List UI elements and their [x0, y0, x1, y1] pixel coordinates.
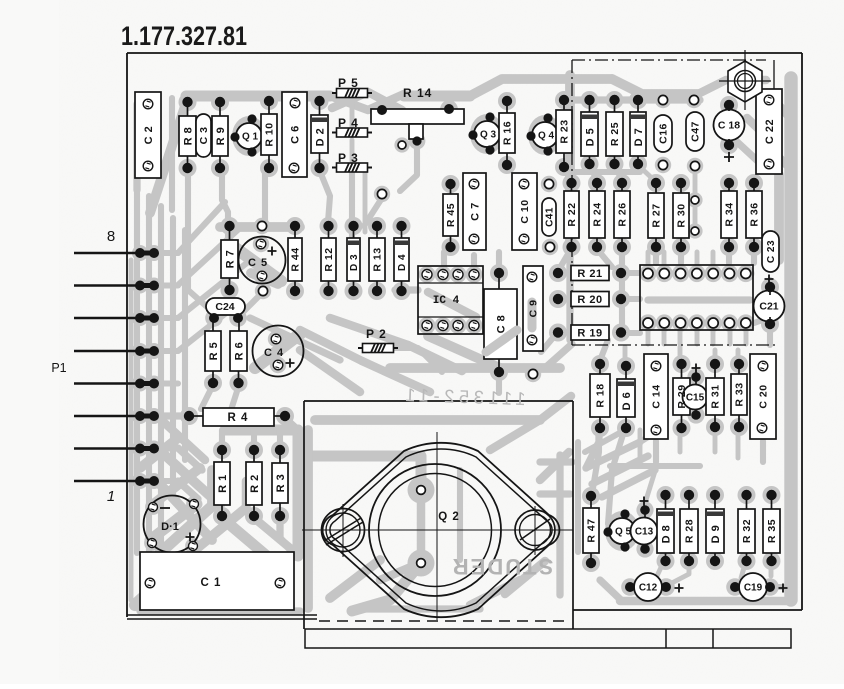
svg-text:C13: C13 — [635, 527, 654, 538]
svg-text:D 8: D 8 — [660, 525, 672, 544]
svg-text:Q 5: Q 5 — [615, 527, 632, 538]
svg-text:C 7: C 7 — [469, 202, 481, 221]
svg-text:C15: C15 — [686, 393, 705, 404]
svg-text:C21: C21 — [759, 301, 778, 313]
svg-text:D 3: D 3 — [349, 254, 360, 271]
svg-text:Q 4: Q 4 — [538, 131, 555, 142]
svg-text:R 24: R 24 — [592, 202, 604, 226]
svg-text:R 35: R 35 — [766, 519, 778, 543]
svg-text:1.177.327.81: 1.177.327.81 — [121, 22, 247, 52]
svg-text:111352-11: 111352-11 — [400, 384, 526, 409]
svg-text:C 4: C 4 — [264, 347, 284, 359]
svg-text:R 21: R 21 — [577, 268, 602, 280]
svg-text:R 10: R 10 — [264, 122, 276, 146]
svg-text:R 4: R 4 — [228, 412, 249, 424]
svg-text:R 23: R 23 — [559, 119, 571, 143]
svg-text:R 26: R 26 — [617, 202, 629, 226]
svg-text:R 20: R 20 — [577, 294, 602, 306]
svg-text:R 13: R 13 — [372, 247, 384, 271]
svg-text:R 8: R 8 — [182, 127, 194, 146]
svg-text:R 1: R 1 — [217, 474, 229, 493]
svg-text:C24: C24 — [215, 301, 234, 313]
svg-text:C 6: C 6 — [289, 125, 301, 144]
svg-text:C12: C12 — [639, 583, 658, 594]
svg-text:P1: P1 — [51, 361, 66, 375]
svg-text:R 16: R 16 — [502, 121, 514, 145]
svg-text:R 3: R 3 — [275, 474, 287, 493]
svg-text:R 14: R 14 — [403, 86, 432, 100]
svg-text:R 5: R 5 — [208, 342, 220, 361]
svg-text:D 7: D 7 — [633, 128, 645, 147]
svg-text:R 33: R 33 — [734, 382, 746, 406]
svg-text:R 47: R 47 — [586, 518, 598, 542]
svg-text:R 18: R 18 — [595, 383, 607, 407]
svg-text:Q 3: Q 3 — [480, 130, 497, 141]
svg-text:C16: C16 — [658, 123, 670, 144]
svg-text:R 44: R 44 — [290, 247, 302, 271]
svg-text:8: 8 — [107, 228, 115, 245]
svg-text:R 31: R 31 — [710, 384, 722, 408]
svg-text:R 28: R 28 — [684, 519, 696, 543]
svg-text:C 14: C 14 — [651, 384, 663, 408]
svg-text:D 4: D 4 — [397, 254, 408, 271]
svg-text:C 3: C 3 — [198, 127, 210, 145]
svg-text:Q 2: Q 2 — [438, 511, 460, 523]
svg-text:C41: C41 — [545, 207, 556, 227]
svg-text:C 18: C 18 — [718, 120, 740, 132]
svg-text:R 45: R 45 — [445, 203, 457, 227]
svg-text:P 5: P 5 — [338, 76, 359, 90]
svg-text:C19: C19 — [744, 583, 763, 594]
svg-text:IC 4: IC 4 — [433, 295, 460, 307]
svg-text:C 2: C 2 — [143, 126, 155, 145]
svg-text:C 20: C 20 — [758, 384, 770, 408]
svg-text:R 34: R 34 — [724, 202, 736, 226]
svg-text:STUDER: STUDER — [451, 554, 553, 579]
svg-text:R 19: R 19 — [577, 327, 602, 339]
svg-text:P 3: P 3 — [338, 151, 359, 165]
svg-text:R 22: R 22 — [566, 202, 578, 226]
svg-text:D 6: D 6 — [621, 392, 633, 411]
svg-text:R 2: R 2 — [249, 474, 261, 493]
svg-text:R 36: R 36 — [749, 202, 761, 226]
svg-text:D 5: D 5 — [584, 128, 596, 147]
svg-text:D·1: D·1 — [161, 521, 179, 533]
svg-text:R 9: R 9 — [215, 127, 227, 146]
svg-text:Q 1: Q 1 — [242, 132, 259, 143]
svg-text:C 1: C 1 — [201, 577, 222, 589]
svg-text:C47: C47 — [690, 121, 702, 142]
svg-text:1: 1 — [107, 488, 115, 505]
svg-text:R 25: R 25 — [609, 122, 621, 146]
svg-text:C 9: C 9 — [528, 300, 540, 318]
svg-text:P 4: P 4 — [338, 116, 359, 130]
svg-text:C 22: C 22 — [764, 119, 776, 144]
svg-text:R 32: R 32 — [741, 519, 753, 543]
svg-text:R 27: R 27 — [651, 203, 663, 227]
svg-text:C 23: C 23 — [766, 240, 777, 263]
svg-text:R 12: R 12 — [323, 247, 335, 271]
svg-text:R 7: R 7 — [224, 250, 236, 269]
svg-text:D 9: D 9 — [710, 525, 722, 544]
svg-text:R 6: R 6 — [233, 342, 245, 361]
svg-text:P 2: P 2 — [366, 327, 387, 341]
svg-text:C 10: C 10 — [519, 199, 531, 223]
svg-text:C 8: C 8 — [495, 315, 507, 334]
svg-text:D 2: D 2 — [314, 128, 326, 147]
svg-text:C 5: C 5 — [248, 257, 268, 269]
svg-text:R 30: R 30 — [676, 203, 688, 227]
